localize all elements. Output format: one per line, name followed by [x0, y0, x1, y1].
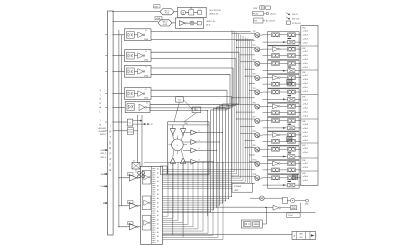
svg-text:TR6: TR6 — [253, 102, 256, 104]
svg-text:TR7: TR7 — [253, 117, 256, 119]
svg-text:TR11: TR11 — [253, 174, 257, 176]
svg-text:003: 003 — [300, 237, 303, 239]
svg-text:TR1: TR1 — [253, 31, 256, 33]
svg-text:SEL 01: SEL 01 — [164, 10, 169, 12]
svg-text:AC/DC: AC/DC — [271, 12, 277, 15]
svg-text:R1: R1 — [190, 8, 192, 10]
svg-text:PS-01: PS-01 — [253, 13, 258, 15]
svg-text:CN1-2: CN1-2 — [100, 153, 107, 155]
svg-text:S: S — [199, 130, 200, 132]
svg-text:AC 125-B.T: AC 125-B.T — [266, 19, 276, 22]
svg-text:IN 2-8: IN 2-8 — [163, 24, 167, 26]
svg-text:SIG IN: SIG IN — [292, 14, 298, 16]
svg-text:-MW-O 4%: -MW-O 4% — [206, 21, 216, 23]
svg-text:CN7: CN7 — [302, 145, 305, 147]
svg-text:-MW-D 4%: -MW-D 4% — [209, 14, 219, 16]
svg-text:(U2): (U2) — [184, 123, 188, 125]
svg-text:1/2W: 1/2W — [253, 8, 257, 10]
svg-text:CN3: CN3 — [302, 48, 305, 50]
svg-text:4N35: 4N35 — [144, 75, 148, 77]
svg-text:I/O IN-OUT: I/O IN-OUT — [292, 23, 302, 25]
svg-text:POWER: POWER — [234, 186, 242, 188]
svg-text:4N35: 4N35 — [144, 60, 148, 62]
svg-text:K1: K1 — [178, 100, 180, 102]
svg-text:TR2: TR2 — [253, 45, 256, 47]
svg-text:N: N — [109, 131, 111, 134]
svg-text:-W-O 8/1 10%: -W-O 8/1 10% — [209, 10, 221, 12]
svg-text:C: C — [109, 164, 111, 167]
svg-text:C1: C1 — [199, 9, 201, 11]
svg-text:TR5: TR5 — [253, 88, 256, 90]
svg-text:S: S — [199, 148, 200, 150]
svg-text:TR9: TR9 — [253, 145, 256, 147]
svg-text:SEL 02: SEL 02 — [162, 22, 167, 24]
svg-text:IN 1-8: IN 1-8 — [165, 13, 169, 15]
svg-text:T1: T1 — [133, 161, 135, 163]
svg-text:INPUT: INPUT — [100, 134, 107, 136]
svg-text:-M-D: -M-D — [206, 25, 211, 27]
svg-text:K2: K2 — [195, 110, 197, 112]
svg-text:R: R — [109, 147, 111, 150]
svg-text:TR4: TR4 — [253, 74, 256, 76]
svg-text:F01: F01 — [254, 20, 257, 22]
svg-text:CN8: CN8 — [302, 160, 305, 162]
svg-text:4N35: 4N35 — [144, 98, 148, 100]
svg-text:50/60Hz: 50/60Hz — [99, 131, 106, 133]
svg-text:S: S — [199, 160, 200, 162]
svg-text:CN4: CN4 — [302, 72, 305, 74]
svg-text:TR10: TR10 — [253, 160, 257, 162]
svg-text:AC100V: AC100V — [99, 127, 107, 130]
svg-text:TR8: TR8 — [253, 131, 256, 133]
svg-text:S: S — [199, 140, 200, 142]
svg-text:CN1-3: CN1-3 — [100, 157, 107, 159]
svg-text:CN5: CN5 — [302, 97, 305, 99]
svg-text:CN10: CN10 — [288, 215, 293, 217]
svg-text:G: G — [99, 99, 101, 101]
svg-text:CN9: CN9 — [302, 173, 305, 175]
svg-text:CN6: CN6 — [302, 121, 305, 123]
svg-text:TR3: TR3 — [253, 59, 256, 61]
svg-text:SIG OUT: SIG OUT — [292, 19, 300, 21]
svg-text:4N35: 4N35 — [144, 39, 148, 41]
svg-text:CN2: CN2 — [302, 28, 305, 30]
